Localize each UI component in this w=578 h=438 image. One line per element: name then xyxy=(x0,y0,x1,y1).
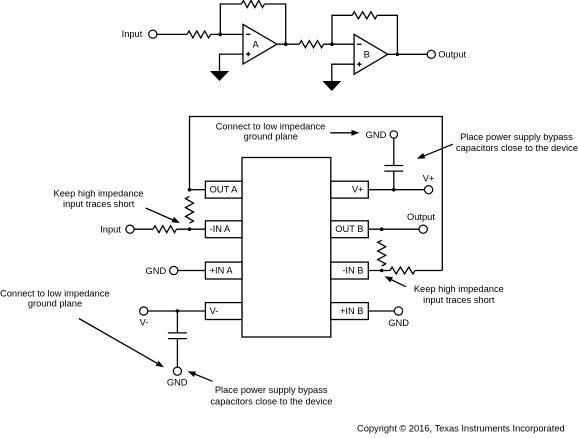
IC body (dual op-amp package) xyxy=(242,158,331,338)
wire cap to V+ wire xyxy=(393,171,395,190)
wire GND to +IN A pin xyxy=(177,270,205,272)
wire R3 to op-amp B inverting input xyxy=(324,43,355,45)
wire B output to output terminal xyxy=(388,53,428,55)
node: B inverting input junction xyxy=(330,42,334,46)
svg-text:-IN A: -IN A xyxy=(210,224,231,234)
svg-text:+IN A: +IN A xyxy=(210,266,234,276)
svg-text:Copyright © 2016, Texas Instru: Copyright © 2016, Texas Instruments Inco… xyxy=(357,423,565,433)
svg-text:V-: V- xyxy=(210,306,219,316)
svg-text:Input: Input xyxy=(122,29,143,39)
svg-text:input traces short: input traces short xyxy=(423,295,495,305)
wire feedback B down to output xyxy=(377,15,397,54)
node: A output junction xyxy=(284,42,288,46)
wire OUT B pin to output terminal xyxy=(368,228,419,230)
wire GND down to bypass cap xyxy=(393,138,395,165)
annotation: keep high impedance input traces short (left) xyxy=(54,188,144,209)
pin box +IN B xyxy=(331,303,369,320)
capacitor (V+ bypass) xyxy=(384,166,403,172)
svg-text:Place power supply bypass: Place power supply bypass xyxy=(460,132,573,142)
wire junction down to bypass cap xyxy=(176,311,178,333)
wire A non-inverting input to ground xyxy=(220,54,244,71)
annotation: connect to low impedance ground plane (bottom left) xyxy=(0,288,110,308)
V- terminal xyxy=(140,307,149,328)
wire B non-inverting input to ground xyxy=(332,64,354,81)
wire input to series resistor xyxy=(134,228,153,230)
resistor (feedback B, OUT B to -IN B) xyxy=(378,240,386,266)
arrow to input resistor (left) xyxy=(146,208,181,223)
wire resistor to -IN A pin xyxy=(177,228,206,230)
svg-text:input traces short: input traces short xyxy=(63,199,135,209)
wire feedback loop B (up and over) xyxy=(332,15,352,44)
svg-text:-IN B: -IN B xyxy=(342,266,363,276)
node: OUT A junction xyxy=(188,188,192,192)
wire V+ pin to V+ terminal xyxy=(368,189,425,191)
wire R1 to op-amp A inverting input xyxy=(211,33,243,35)
output terminal (top schematic) xyxy=(427,50,466,60)
node: -IN A junction xyxy=(188,227,192,231)
svg-text:V+: V+ xyxy=(352,185,364,195)
wire resistor to feedback rail xyxy=(415,270,442,272)
svg-text:GND: GND xyxy=(366,130,387,140)
wire input to R1 xyxy=(156,33,187,35)
annotation: connect to low impedance ground plane (top) xyxy=(216,122,326,142)
GND terminal (V+ bypass) xyxy=(366,130,398,140)
svg-text:Input: Input xyxy=(100,225,121,235)
svg-text:Keep high impedance: Keep high impedance xyxy=(54,188,144,198)
wire A output to R3 xyxy=(277,43,299,45)
GND terminal at +IN B xyxy=(388,307,409,328)
node: V- bypass junction xyxy=(176,309,180,313)
svg-text:ground plane: ground plane xyxy=(28,298,82,308)
resistor (interstage series, layout) xyxy=(390,267,415,274)
svg-text:Connect to low impedance: Connect to low impedance xyxy=(0,288,110,298)
svg-text:GND: GND xyxy=(388,318,409,328)
output terminal (layout) xyxy=(407,212,435,233)
arrow to V- bypass GND xyxy=(79,319,164,368)
svg-text:V-: V- xyxy=(140,318,149,328)
arrow to V+ bypass cap xyxy=(417,144,453,159)
pin box OUT B xyxy=(331,221,369,238)
svg-text:Place power supply bypass: Place power supply bypass xyxy=(215,385,328,395)
svg-text:GND: GND xyxy=(146,266,167,276)
wire OUT A pin to feedback rail xyxy=(190,189,206,191)
resistor R2 (feedback A) xyxy=(242,1,265,8)
node: B output junction xyxy=(396,53,400,57)
svg-text:Connect to low impedance: Connect to low impedance xyxy=(216,122,326,132)
input terminal (top schematic) xyxy=(122,29,157,39)
op-amp U1A xyxy=(243,24,277,64)
wire +IN B pin to GND terminal xyxy=(368,310,394,312)
pin box OUT A xyxy=(205,181,242,198)
pin box V- xyxy=(205,303,242,320)
GND terminal (V- bypass) xyxy=(167,367,188,387)
svg-text:capacitors close to the device: capacitors close to the device xyxy=(210,397,332,407)
wire feedback A down to output xyxy=(264,4,285,44)
pin box V+ xyxy=(331,181,369,198)
svg-text:ground plane: ground plane xyxy=(244,132,298,142)
V+ terminal xyxy=(423,173,435,193)
resistor R1 (input series) xyxy=(187,31,211,38)
wire feedback trace loop (OUT A around board to -IN B) xyxy=(190,117,443,271)
input terminal (layout) xyxy=(100,225,134,235)
wire V- to V- pin xyxy=(147,310,205,312)
svg-text:GND: GND xyxy=(167,377,188,387)
arrow to top GND xyxy=(330,130,359,136)
svg-text:OUT B: OUT B xyxy=(335,224,363,234)
annotation: place power supply bypass capacitors (top right) xyxy=(456,132,578,153)
node: -IN B junction xyxy=(380,269,384,273)
pin box +IN A xyxy=(205,262,242,279)
node: OUT B junction xyxy=(380,227,384,231)
arrow to V- bypass GND terminal xyxy=(188,371,213,381)
svg-text:A: A xyxy=(253,39,260,49)
wire feedback loop A (up and over) xyxy=(220,4,241,34)
op-amp U1B xyxy=(354,34,388,74)
pin box -IN A xyxy=(205,221,242,238)
capacitor (V- bypass) xyxy=(168,333,187,339)
ground (op-amp B) xyxy=(322,81,341,91)
svg-text:+IN B: +IN B xyxy=(340,306,364,316)
wire -IN B pin to junction xyxy=(368,270,390,272)
svg-text:capacitors close to the device: capacitors close to the device xyxy=(456,143,578,153)
svg-text:Keep high impedance: Keep high impedance xyxy=(414,284,504,294)
ground (op-amp A) xyxy=(210,71,229,81)
GND terminal at +IN A xyxy=(146,266,178,276)
resistor R4 (feedback B) xyxy=(352,12,377,19)
node: V+ bypass junction xyxy=(392,188,396,192)
wire cap to GND terminal xyxy=(176,339,178,368)
resistor (feedback A, OUT A to -IN A) xyxy=(186,196,194,223)
svg-text:Output: Output xyxy=(407,212,435,222)
resistor (input series, layout) xyxy=(153,226,177,233)
arrow to -IN B junction xyxy=(384,276,405,287)
svg-text:B: B xyxy=(364,50,370,60)
svg-text:Output: Output xyxy=(438,50,466,60)
annotation: keep high impedance input traces short (bottom right) xyxy=(414,284,504,305)
node: A inverting input junction xyxy=(219,33,223,37)
svg-text:OUT A: OUT A xyxy=(210,185,239,195)
svg-text:V+: V+ xyxy=(423,173,435,183)
resistor R3 (interstage series) xyxy=(299,41,323,48)
annotation: place power supply bypass capacitors (bottom) xyxy=(210,385,332,407)
pin box -IN B xyxy=(331,262,369,279)
